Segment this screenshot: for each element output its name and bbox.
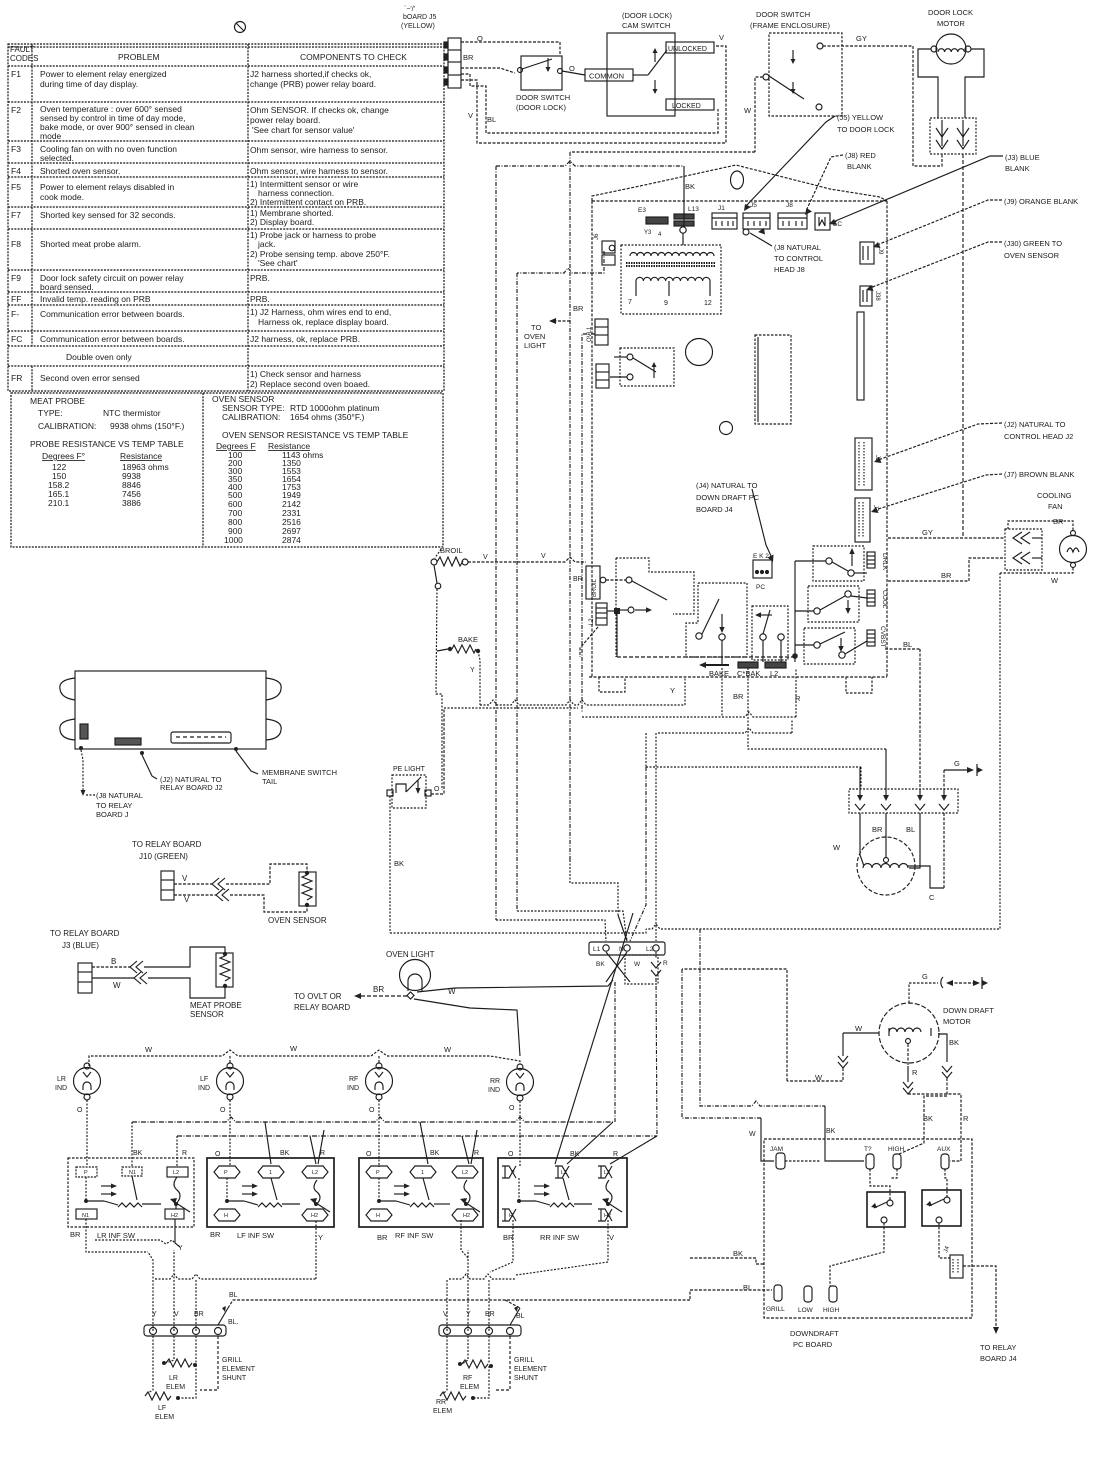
svg-text:PRB.: PRB. xyxy=(250,273,270,283)
door lock motor xyxy=(928,8,973,28)
svg-text:(J8) RED: (J8) RED xyxy=(845,151,876,160)
svg-text:N1: N1 xyxy=(82,1213,89,1219)
svg-text:L2: L2 xyxy=(604,1170,610,1176)
svg-text:TO RELAY BOARD: TO RELAY BOARD xyxy=(50,929,120,938)
W wire from frame switch xyxy=(755,77,763,152)
svg-text:R: R xyxy=(912,1068,918,1077)
svg-text:IND: IND xyxy=(198,1085,210,1092)
svg-text:GRILL: GRILL xyxy=(514,1357,534,1364)
cvbak relay xyxy=(752,606,788,660)
svg-text:BLANK: BLANK xyxy=(847,162,872,171)
svg-text:CALIBRATION:: CALIBRATION: xyxy=(38,421,96,431)
svg-text:DOWN DRAFT: DOWN DRAFT xyxy=(943,1006,994,1015)
TO RELAY BOARD J3 (BLUE) / meat probe xyxy=(50,929,242,1019)
svg-text:L1: L1 xyxy=(561,1170,567,1176)
svg-text:BR: BR xyxy=(210,1230,221,1239)
svg-text:(FRAME ENCLOSURE): (FRAME ENCLOSURE) xyxy=(750,21,831,30)
svg-text:TO DOOR LOCK: TO DOOR LOCK xyxy=(837,125,894,134)
svg-text:O: O xyxy=(477,34,483,43)
svg-text:L2: L2 xyxy=(312,1170,318,1176)
svg-text:O: O xyxy=(220,1107,226,1114)
svg-text:L2: L2 xyxy=(462,1170,468,1176)
svg-text:(J5) YELLOW: (J5) YELLOW xyxy=(837,113,884,122)
svg-text:F-: F- xyxy=(11,309,19,319)
svg-text:Y: Y xyxy=(470,667,475,674)
svg-text:F9: F9 xyxy=(11,273,21,283)
svg-text:OVEN LIGHT: OVEN LIGHT xyxy=(386,950,435,959)
svg-text:PROBE RESISTANCE VS TEMP TABLE: PROBE RESISTANCE VS TEMP TABLE xyxy=(30,439,184,449)
infinite switch box 1 xyxy=(68,1158,194,1227)
door switch (door lock) xyxy=(521,56,562,90)
W wire: frame switch down left side xyxy=(570,151,755,153)
cam switch arm xyxy=(633,74,648,76)
svg-text:L2: L2 xyxy=(646,946,654,953)
y=767 run xyxy=(646,766,861,768)
svg-text:Resistance: Resistance xyxy=(120,451,162,461)
svg-text:DOOR SWITCH: DOOR SWITCH xyxy=(756,10,810,19)
svg-text:ELEMENT: ELEMENT xyxy=(514,1366,548,1373)
svg-text:V: V xyxy=(184,895,190,904)
svg-text:COOL: COOL xyxy=(881,590,888,609)
svg-text:LF INF SW: LF INF SW xyxy=(237,1231,275,1240)
svg-text:CAM SWITCH: CAM SWITCH xyxy=(622,21,670,30)
y=705 run (Y wire from board) xyxy=(480,700,685,705)
svg-text:9: 9 xyxy=(664,300,668,307)
svg-text:BL: BL xyxy=(743,1283,752,1292)
svg-text:L2: L2 xyxy=(173,1170,179,1176)
svg-text:TO CONTROL: TO CONTROL xyxy=(774,254,823,263)
svg-text:R: R xyxy=(320,1150,325,1157)
svg-text:(DOOR LOCK): (DOOR LOCK) xyxy=(516,103,567,112)
svg-text:BLANK: BLANK xyxy=(1005,164,1030,173)
svg-text:Communication error between bo: Communication error between boards. xyxy=(40,334,185,344)
svg-text:BL: BL xyxy=(903,640,912,649)
svg-text:BK: BK xyxy=(949,1038,959,1047)
svg-text:1) J2 Harness, ohm wires end t: 1) J2 Harness, ohm wires end to end, xyxy=(250,307,391,317)
y=749 BR run xyxy=(748,668,886,749)
svg-text:O: O xyxy=(509,1105,515,1112)
svg-text:H2: H2 xyxy=(311,1213,318,1219)
svg-text:LR INF SW: LR INF SW xyxy=(97,1231,136,1240)
svg-text:CONTROL HEAD J2: CONTROL HEAD J2 xyxy=(1004,432,1073,441)
line B: to E3 on board xyxy=(496,161,684,166)
svg-text:J6: J6 xyxy=(594,233,600,240)
svg-text:TYPE:: TYPE: xyxy=(38,408,63,418)
svg-text:Shorted oven sensor.: Shorted oven sensor. xyxy=(40,166,120,176)
svg-text:'See chart': 'See chart' xyxy=(258,258,298,268)
svg-text:LOCKED: LOCKED xyxy=(672,103,701,110)
svg-text:SHUNT: SHUNT xyxy=(514,1375,539,1382)
svg-text:O: O xyxy=(569,64,575,73)
svg-text:3886: 3886 xyxy=(122,498,141,508)
svg-text:Y3: Y3 xyxy=(644,230,652,236)
svg-text:(J8 NATURAL: (J8 NATURAL xyxy=(774,243,821,252)
svg-text:bOARD J5: bOARD J5 xyxy=(403,14,437,21)
svg-text:Y: Y xyxy=(670,686,675,695)
svg-text:BR: BR xyxy=(373,985,384,994)
svg-text:W: W xyxy=(749,1131,756,1138)
svg-text:H: H xyxy=(224,1213,228,1219)
svg-text:J8: J8 xyxy=(786,202,793,209)
svg-text:V: V xyxy=(541,553,546,560)
svg-text:GRILL: GRILL xyxy=(766,1306,785,1313)
svg-text:mode: mode xyxy=(40,131,62,141)
x=582 OVL1 chain xyxy=(582,334,595,712)
svg-text:Ohm sensor, wire harness to se: Ohm sensor, wire harness to sensor. xyxy=(250,166,388,176)
svg-text:F8: F8 xyxy=(11,239,21,249)
UNLOCKED box xyxy=(666,42,714,53)
infinite switch box 4 xyxy=(498,1158,627,1227)
svg-text:F4: F4 xyxy=(11,166,21,176)
svg-text:FF: FF xyxy=(11,294,21,304)
internal wires xyxy=(870,1169,890,1200)
svg-text:V: V xyxy=(719,33,724,42)
svg-text:RF: RF xyxy=(349,1076,358,1083)
svg-text:BK: BK xyxy=(733,1249,743,1258)
cooling fan xyxy=(903,491,1072,649)
svg-text:TAIL: TAIL xyxy=(262,777,277,786)
svg-text:P: P xyxy=(84,1170,88,1176)
svg-text:BK: BK xyxy=(570,1151,580,1158)
big circle + small circle xyxy=(686,339,713,366)
svg-text:C*BAK: C*BAK xyxy=(737,669,760,678)
svg-text:R: R xyxy=(963,1114,969,1123)
BK chain to downdraft xyxy=(700,929,825,1106)
svg-text:BOARD J4: BOARD J4 xyxy=(696,505,733,514)
svg-text:BK: BK xyxy=(394,859,404,868)
svg-text:BL: BL xyxy=(487,115,496,124)
svg-text:selected.: selected. xyxy=(40,153,74,163)
svg-text:L13: L13 xyxy=(688,206,699,213)
CVBST relay xyxy=(804,628,855,664)
svg-text:(YELLOW): (YELLOW) xyxy=(401,23,435,30)
svg-text:OVEN: OVEN xyxy=(524,332,545,341)
svg-text:MEMBRANE SWITCH: MEMBRANE SWITCH xyxy=(262,768,337,777)
BAKE resistor xyxy=(448,647,452,651)
svg-text:BR: BR xyxy=(872,825,883,834)
motor right BK wire xyxy=(938,1034,947,1062)
svg-text:(J2) NATURAL TO: (J2) NATURAL TO xyxy=(1004,420,1066,429)
svg-text:MOTOR: MOTOR xyxy=(937,19,965,28)
svg-text:J38: J38 xyxy=(874,291,880,301)
COOL relay xyxy=(808,586,859,622)
svg-text:BR: BR xyxy=(503,1233,514,1242)
internal wiring of relay cluster xyxy=(795,560,826,562)
svg-text:BR: BR xyxy=(573,576,583,583)
svg-text:B: B xyxy=(111,957,116,966)
svg-text:V: V xyxy=(468,111,473,120)
svg-text:ELEM: ELEM xyxy=(166,1384,185,1391)
svg-text:BR: BR xyxy=(70,1230,81,1239)
svg-text:O: O xyxy=(77,1107,83,1114)
svg-text:1654 ohms (350°F.): 1654 ohms (350°F.) xyxy=(290,412,364,422)
svg-text:O: O xyxy=(369,1107,375,1114)
svg-text:OVEN SENSOR: OVEN SENSOR xyxy=(1004,251,1060,260)
down draft motor xyxy=(815,972,994,1123)
svg-text:T?: T? xyxy=(864,1146,872,1153)
convection motor xyxy=(857,837,915,895)
svg-text:1) Check sensor and harness: 1) Check sensor and harness xyxy=(250,369,361,379)
DRLK relay xyxy=(813,546,864,581)
svg-text:W: W xyxy=(833,843,841,852)
svg-text:BR: BR xyxy=(573,304,584,313)
downdraft pc board outline xyxy=(764,1139,972,1318)
svg-text:R: R xyxy=(663,960,668,967)
y=717 run (R wire) xyxy=(582,712,796,717)
svg-text:Y: Y xyxy=(152,1311,157,1318)
svg-text:BK: BK xyxy=(596,961,605,968)
svg-text:DOWNDRAFT: DOWNDRAFT xyxy=(790,1329,839,1338)
svg-text:BOARD J: BOARD J xyxy=(96,810,129,819)
svg-text:change (PRB) power relay board: change (PRB) power relay board. xyxy=(250,79,376,89)
svg-text:O: O xyxy=(434,786,440,793)
E3 connectors at top xyxy=(638,166,699,245)
svg-text:V: V xyxy=(174,1311,179,1318)
svg-text:PROBLEM: PROBLEM xyxy=(118,52,160,62)
wire BR xyxy=(461,68,515,73)
svg-text:AUX: AUX xyxy=(937,1146,951,1153)
svg-text:BAKE: BAKE xyxy=(709,669,729,678)
svg-text:F1: F1 xyxy=(11,69,21,79)
x=646 down to N xyxy=(630,767,646,941)
svg-text:TO RELAY: TO RELAY xyxy=(980,1343,1016,1352)
leaders xyxy=(81,750,83,793)
oven light relay on board xyxy=(620,348,674,386)
J6 chain to x=517 xyxy=(517,251,604,273)
svg-text:RR: RR xyxy=(436,1399,446,1406)
elements 2 xyxy=(462,1360,488,1368)
svg-text:RELAY BOARD: RELAY BOARD xyxy=(294,1003,350,1012)
svg-text:'See chart for sensor value': 'See chart for sensor value' xyxy=(252,125,355,135)
svg-text:N1: N1 xyxy=(129,1170,136,1176)
W bus over indicator lights xyxy=(89,1050,520,1066)
svg-text:RELAY BOARD J2: RELAY BOARD J2 xyxy=(160,783,223,792)
svg-text:F7: F7 xyxy=(11,210,21,220)
svg-text:W: W xyxy=(855,1024,863,1033)
svg-text:J4: J4 xyxy=(943,1245,951,1254)
wires below boxes to terminal strips xyxy=(86,1219,148,1252)
svg-text:BK: BK xyxy=(826,1128,836,1135)
X crossing below strip xyxy=(606,952,630,982)
svg-text:2) Replace second oven boaed.: 2) Replace second oven boaed. xyxy=(250,379,370,389)
svg-text:F2: F2 xyxy=(11,105,21,115)
svg-text:1000: 1000 xyxy=(224,535,243,545)
OVL1 connector xyxy=(595,319,608,345)
membrane switch panel xyxy=(75,671,266,749)
svg-text:(DOOR LOCK): (DOOR LOCK) xyxy=(622,11,673,20)
svg-text:UNLOCKED: UNLOCKED xyxy=(668,46,707,53)
svg-text:OVEN SENSOR: OVEN SENSOR xyxy=(268,916,327,925)
relay boxes xyxy=(867,1192,905,1227)
svg-text:Communication error between bo: Communication error between boards. xyxy=(40,309,185,319)
svg-text:Y: Y xyxy=(318,1233,323,1242)
svg-text:R: R xyxy=(474,1150,479,1157)
svg-text:BROIL: BROIL xyxy=(592,578,598,597)
svg-text:V: V xyxy=(609,1233,614,1242)
svg-text:Y: Y xyxy=(178,1245,183,1252)
svg-text:J2 harness shorted,if checks o: J2 harness shorted,if checks ok, xyxy=(250,69,371,79)
svg-text:H2: H2 xyxy=(171,1213,178,1219)
svg-text:J1: J1 xyxy=(718,205,725,212)
leader labels right side xyxy=(774,113,1078,479)
svg-text:MEAT PROBE: MEAT PROBE xyxy=(190,1001,242,1010)
indicator lights xyxy=(74,1063,534,1101)
svg-text:J10 (GREEN): J10 (GREEN) xyxy=(139,852,188,861)
svg-text:COMPONENTS TO CHECK: COMPONENTS TO CHECK xyxy=(300,52,407,62)
svg-text:COOLING: COOLING xyxy=(1037,491,1072,500)
svg-text:C: C xyxy=(929,893,935,902)
G quick disconnect top xyxy=(944,769,972,771)
bake relay center xyxy=(686,583,747,657)
svg-text:LIGHT: LIGHT xyxy=(524,341,547,350)
svg-text:H: H xyxy=(509,1213,513,1219)
svg-text:PC: PC xyxy=(756,584,765,591)
svg-text:J5: J5 xyxy=(750,202,757,209)
left edge connector upper xyxy=(594,233,615,265)
svg-text:2) Display board.: 2) Display board. xyxy=(250,217,314,227)
top 4-pin connectors J1 J5 J8 xyxy=(712,202,842,230)
svg-text:FR: FR xyxy=(11,373,22,383)
svg-text:PRB.: PRB. xyxy=(250,294,270,304)
svg-text:P: P xyxy=(376,1170,380,1176)
svg-text:Ohm sensor, wire harness to se: Ohm sensor, wire harness to sensor. xyxy=(250,145,388,155)
svg-text:Double oven only: Double oven only xyxy=(66,352,132,362)
svg-text:P: P xyxy=(511,1170,515,1176)
svg-text:J9: J9 xyxy=(877,248,883,255)
BL wire into GRILL xyxy=(690,1290,772,1299)
svg-text:(J4) NATURAL TO: (J4) NATURAL TO xyxy=(696,481,758,490)
svg-text:BR: BR xyxy=(463,53,474,62)
svg-text:RF INF SW: RF INF SW xyxy=(395,1231,434,1240)
svg-text:JAM: JAM xyxy=(770,1146,783,1153)
wires from board to fan xyxy=(888,537,1005,539)
bottom terminals xyxy=(774,1285,782,1301)
svg-text:during time of day display.: during time of day display. xyxy=(40,79,138,89)
svg-text:E3: E3 xyxy=(638,207,646,214)
svg-text:LF: LF xyxy=(200,1076,208,1083)
svg-text:Degrees F°: Degrees F° xyxy=(42,451,85,461)
svg-text:LF: LF xyxy=(158,1405,166,1412)
svg-text:BR: BR xyxy=(194,1311,204,1318)
W return y=929 xyxy=(646,573,1000,929)
svg-text:FAULT: FAULT xyxy=(10,45,34,54)
svg-text:BK: BK xyxy=(685,182,695,191)
svg-text:210.1: 210.1 xyxy=(48,498,70,508)
svg-text:BR: BR xyxy=(485,1311,495,1318)
svg-text:CVBST: CVBST xyxy=(879,626,886,648)
W chain to downdraft xyxy=(682,969,761,1118)
infinite switch box 2 xyxy=(207,1158,334,1227)
svg-text:O: O xyxy=(508,1151,514,1158)
svg-text:IND: IND xyxy=(488,1087,500,1094)
screw head top left xyxy=(235,22,246,33)
svg-text:E K 2: E K 2 xyxy=(753,553,769,560)
feeds strip2 xyxy=(449,1274,516,1279)
svg-text:H2: H2 xyxy=(463,1213,470,1219)
svg-text:G: G xyxy=(954,759,960,768)
svg-text:Ohm SENSOR. If checks ok, chan: Ohm SENSOR. If checks ok, change xyxy=(250,105,389,115)
svg-text:DOOR SWITCH: DOOR SWITCH xyxy=(516,93,570,102)
wire exits left of relay cluster xyxy=(580,627,598,657)
broil relay xyxy=(616,558,694,614)
svg-text:Power to element relay energiz: Power to element relay energized xyxy=(40,69,167,79)
svg-text:IND: IND xyxy=(347,1085,359,1092)
frame door switch xyxy=(750,10,831,30)
svg-text:SENSOR: SENSOR xyxy=(190,1010,224,1019)
svg-text:BK: BK xyxy=(133,1150,143,1157)
svg-text:BOARD J4: BOARD J4 xyxy=(980,1354,1017,1363)
svg-text:BROIL: BROIL xyxy=(440,546,463,555)
svg-text:7: 7 xyxy=(628,299,632,306)
svg-text:bake mode, or over 900° sensed: bake mode, or over 900° sensed in clean xyxy=(40,122,195,132)
L1 N L2 terminal strip xyxy=(589,942,665,955)
svg-text:ELEM: ELEM xyxy=(460,1384,479,1391)
mounting feet xyxy=(599,677,625,692)
svg-text:CALIBRATION:: CALIBRATION: xyxy=(222,412,280,422)
svg-text:ELEM: ELEM xyxy=(155,1414,174,1421)
svg-text:(J30) GREEN TO: (J30) GREEN TO xyxy=(1004,239,1062,248)
G disconnect lower xyxy=(909,983,938,1003)
LOCKED box xyxy=(666,99,714,110)
svg-text:BR: BR xyxy=(377,1233,388,1242)
heater element box under motor xyxy=(930,118,976,154)
svg-text:RR: RR xyxy=(490,1078,500,1085)
svg-text:BAKE: BAKE xyxy=(458,635,478,644)
svg-text:board sensed.: board sensed. xyxy=(40,282,94,292)
svg-text:LOW: LOW xyxy=(798,1307,814,1314)
bus wires above boxes xyxy=(132,1117,613,1122)
svg-text:(J9) ORANGE BLANK: (J9) ORANGE BLANK xyxy=(1004,197,1078,206)
svg-text:LR: LR xyxy=(169,1375,178,1382)
svg-text:F3: F3 xyxy=(11,144,21,154)
y=707 to PE light? (OVL to oven light) xyxy=(444,707,578,709)
svg-text:TO: TO xyxy=(531,323,541,332)
svg-text:(J7) BROWN BLANK: (J7) BROWN BLANK xyxy=(1004,470,1074,479)
svg-text:OVEN SENSOR RESISTANCE VS TEMP: OVEN SENSOR RESISTANCE VS TEMP TABLE xyxy=(222,430,409,440)
svg-text:O: O xyxy=(366,1151,372,1158)
svg-text:BK: BK xyxy=(430,1150,440,1157)
svg-text:cook mode.: cook mode. xyxy=(40,192,84,202)
svg-text:W: W xyxy=(290,1044,298,1053)
svg-text:W: W xyxy=(145,1045,153,1054)
box labels xyxy=(70,1230,614,1242)
svg-text:CODES: CODES xyxy=(10,54,38,63)
infinite switch box 3 xyxy=(359,1158,483,1227)
svg-text:NTC thermistor: NTC thermistor xyxy=(103,408,161,418)
terminal strip 1 xyxy=(144,1325,226,1336)
svg-text:BL: BL xyxy=(516,1313,525,1320)
element feeds xyxy=(859,767,861,789)
motor left W wire xyxy=(843,1032,879,1034)
svg-text:LR: LR xyxy=(57,1076,66,1083)
svg-text:DOWN DRAFT PC: DOWN DRAFT PC xyxy=(696,493,760,502)
svg-text:2) Intermittent contact on PRB: 2) Intermittent contact on PRB. xyxy=(250,197,366,207)
svg-text:FC: FC xyxy=(11,334,22,344)
heater element chassis feedthrough xyxy=(849,789,958,813)
TO OVEN LIGHT tap xyxy=(552,320,570,322)
svg-text:ELEMENT: ELEMENT xyxy=(222,1366,256,1373)
svg-text:2874: 2874 xyxy=(282,535,301,545)
meat probe / oven sensor table frame xyxy=(11,393,443,547)
svg-text:RR INF SW: RR INF SW xyxy=(540,1233,580,1242)
COMMON box xyxy=(585,69,633,81)
x=656 R feed down to strip xyxy=(655,733,657,941)
svg-text:HIGH: HIGH xyxy=(888,1146,905,1153)
svg-text:power relay board.: power relay board. xyxy=(250,115,320,125)
svg-text:1: 1 xyxy=(421,1170,424,1176)
svg-text:O: O xyxy=(215,1151,221,1158)
L2 edge connector xyxy=(596,603,607,625)
